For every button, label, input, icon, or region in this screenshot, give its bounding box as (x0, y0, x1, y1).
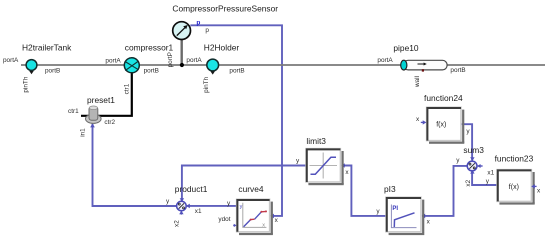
svg-text:p: p (205, 27, 209, 34)
wire limit3.y to product1 top (180, 166, 306, 202)
preset1 (86, 106, 102, 123)
wire curve4.y to product1.x1 (186, 204, 236, 209)
svg-text:portB: portB (229, 68, 244, 75)
svg-text:function24: function24 (424, 93, 463, 103)
wire function24.y to sum3 top (461, 124, 474, 161)
svg-text:x: x (427, 219, 431, 226)
svg-text:portA: portA (377, 57, 393, 64)
svg-text:x: x (262, 222, 265, 228)
CompressorPressureSensor gauge (173, 22, 191, 65)
wire sum3.y to pI3.x (422, 166, 468, 218)
pipe10 (401, 60, 447, 71)
svg-text:y: y (466, 128, 470, 135)
H2trailerTank (26, 60, 37, 75)
wire ctr1 compressor to preset1 (black) (81, 72, 132, 115)
svg-text:ydot: ydot (218, 216, 230, 223)
svg-text:ctr1: ctr1 (68, 108, 79, 115)
svg-text:CompressorPressureSensor: CompressorPressureSensor (172, 3, 278, 13)
svg-text:limit3: limit3 (306, 136, 326, 146)
wire p sensor to curve4.x (190, 25, 282, 218)
svg-text:p: p (196, 20, 200, 27)
svg-text:y: y (296, 157, 300, 164)
svg-text:portB: portB (144, 68, 159, 75)
H2Holder (207, 59, 219, 75)
svg-text:preset1: preset1 (87, 95, 115, 105)
svg-text:x: x (345, 169, 349, 176)
svg-text:y: y (166, 198, 170, 205)
function23 (497, 170, 537, 205)
svg-text:portB: portB (45, 68, 60, 75)
wire function23.y to sum3 bottom (470, 170, 497, 185)
svg-text:y: y (376, 208, 380, 215)
svg-text:PI: PI (392, 206, 398, 212)
svg-text:f(x): f(x) (436, 122, 446, 129)
wire in1 preset1 to product1 (90, 123, 176, 206)
svg-text:x: x (537, 187, 541, 194)
sum3 (467, 161, 482, 171)
function24 (421, 107, 465, 144)
svg-text:pI3: pI3 (384, 184, 396, 194)
svg-text:wall: wall (414, 76, 421, 88)
svg-text:H2Holder: H2Holder (204, 42, 240, 52)
svg-text:f(x): f(x) (509, 184, 519, 191)
svg-text:x: x (416, 116, 420, 123)
svg-text:curve4: curve4 (238, 184, 263, 194)
svg-text:product1: product1 (175, 184, 208, 194)
product1 (177, 201, 187, 214)
curve4 (233, 199, 273, 235)
limit3 (306, 149, 344, 186)
svg-text:y: y (456, 157, 460, 164)
svg-text:x2: x2 (174, 220, 181, 227)
svg-text:ctr2: ctr2 (104, 119, 115, 126)
svg-text:ctr1: ctr1 (123, 83, 130, 94)
svg-text:pinTh: pinTh (23, 76, 30, 92)
svg-text:pinTh: pinTh (203, 76, 210, 92)
compressor1 (124, 58, 139, 73)
svg-text:portB: portB (450, 67, 465, 74)
svg-text:x1: x1 (195, 208, 202, 215)
pI3 (386, 197, 424, 235)
junction dot portP on main line (180, 63, 184, 67)
svg-text:portA: portA (186, 57, 202, 64)
wire: main fluid line (21, 64, 545, 66)
svg-text:sum3: sum3 (463, 145, 484, 155)
svg-text:y: y (240, 204, 243, 210)
svg-text:H2trailerTank: H2trailerTank (22, 42, 72, 52)
svg-text:pipe10: pipe10 (393, 43, 418, 53)
svg-text:portA: portA (105, 58, 121, 65)
svg-text:function23: function23 (495, 153, 534, 163)
svg-text:x: x (275, 217, 279, 224)
wire pI3.y to limit3.x (341, 163, 386, 216)
svg-text:in1: in1 (79, 128, 86, 137)
svg-text:x1: x1 (487, 169, 494, 176)
svg-text:x2: x2 (465, 179, 472, 186)
svg-text:y: y (486, 178, 490, 185)
svg-text:portP: portP (167, 52, 174, 67)
svg-text:compressor1: compressor1 (125, 42, 174, 52)
svg-text:portA: portA (3, 57, 19, 64)
